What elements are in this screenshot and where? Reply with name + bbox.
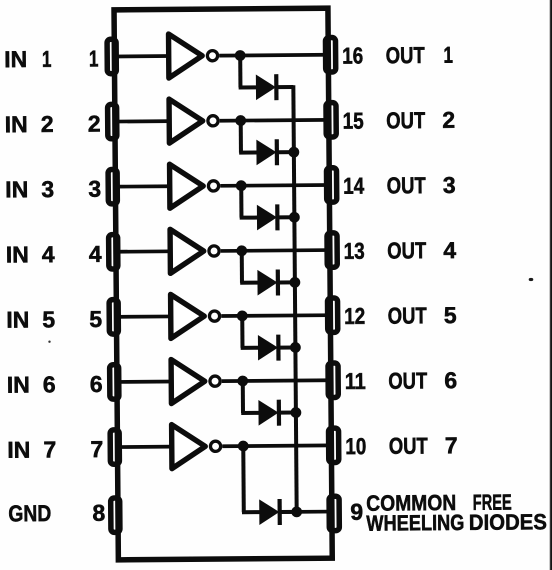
svg-text:IN: IN	[7, 437, 30, 463]
svg-text:8: 8	[92, 500, 105, 526]
svg-text:4: 4	[42, 241, 55, 267]
svg-text:15: 15	[343, 108, 364, 134]
svg-text:IN: IN	[4, 46, 27, 72]
svg-text:OUT: OUT	[386, 107, 425, 133]
svg-text:IN: IN	[5, 176, 28, 202]
svg-text:12: 12	[344, 303, 365, 329]
svg-text:WHEELING: WHEELING	[366, 510, 464, 536]
svg-text:GND: GND	[8, 500, 51, 526]
svg-text:2: 2	[41, 111, 54, 137]
svg-text:6: 6	[90, 371, 103, 397]
svg-text:10: 10	[345, 433, 366, 459]
svg-text:OUT: OUT	[386, 42, 425, 68]
svg-text:2: 2	[442, 107, 455, 133]
svg-text:IN: IN	[7, 372, 30, 398]
svg-text:DIODES: DIODES	[469, 509, 547, 535]
svg-text:16: 16	[342, 42, 363, 68]
svg-text:9: 9	[350, 499, 363, 525]
svg-text:3: 3	[88, 176, 101, 202]
svg-text:IN: IN	[6, 241, 29, 267]
svg-text:5: 5	[42, 306, 55, 332]
svg-text:7: 7	[43, 436, 56, 462]
svg-text:OUT: OUT	[387, 237, 426, 263]
svg-text:11: 11	[345, 368, 366, 394]
svg-text:OUT: OUT	[389, 433, 428, 459]
svg-text:1: 1	[89, 45, 99, 71]
svg-text:7: 7	[90, 436, 103, 462]
svg-text:3: 3	[41, 176, 54, 202]
svg-text:14: 14	[343, 173, 364, 199]
svg-text:5: 5	[444, 302, 457, 328]
svg-text:IN: IN	[5, 111, 28, 137]
svg-text:3: 3	[443, 172, 456, 198]
svg-text:6: 6	[444, 367, 457, 393]
svg-text:4: 4	[89, 241, 102, 267]
svg-text:6: 6	[43, 371, 56, 397]
svg-text:OUT: OUT	[388, 302, 427, 328]
svg-text:1: 1	[443, 42, 453, 68]
svg-text:13: 13	[344, 238, 365, 264]
svg-text:2: 2	[88, 111, 101, 137]
svg-text:7: 7	[445, 432, 458, 458]
svg-text:OUT: OUT	[388, 367, 427, 393]
svg-text:1: 1	[42, 46, 52, 72]
svg-text:4: 4	[443, 237, 456, 263]
svg-text:5: 5	[89, 306, 102, 332]
svg-text:IN: IN	[6, 306, 29, 332]
svg-text:OUT: OUT	[387, 172, 426, 198]
